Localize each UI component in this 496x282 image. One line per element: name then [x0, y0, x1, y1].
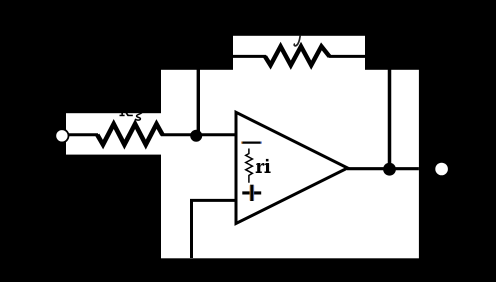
wire Rs to node A: [161, 133, 236, 136]
white canvas: central region: [161, 70, 419, 258]
internal resistor ri: [246, 149, 253, 183]
resistor Rf: [265, 46, 329, 65]
output terminal: [435, 163, 448, 176]
wire plus input to ground drop: [192, 200, 237, 258]
label Rs (clipped by black above strip): [120, 110, 142, 120]
white canvas: left input strip: [66, 113, 161, 154]
wire input to Rs: [68, 133, 98, 136]
minus input sign: [242, 142, 261, 144]
wire feedback riser down: [388, 69, 392, 165]
plus sign color fringes: [249, 185, 251, 200]
wire output: [347, 167, 419, 170]
output node junction dot: [383, 163, 396, 176]
label Rf descender hook: [294, 36, 300, 46]
wire feedback top left: [233, 55, 266, 58]
wire feedback top right: [329, 55, 366, 58]
resistor Rs: [97, 124, 162, 145]
plus input sign: [242, 191, 261, 194]
white canvas: top band around Rf: [233, 36, 365, 71]
op-amp U1 triangle: [236, 112, 348, 223]
label ri: [256, 159, 271, 173]
node A junction dot: [190, 130, 202, 142]
wire riser node A up to feedback: [197, 69, 200, 134]
input terminal: [55, 129, 68, 142]
